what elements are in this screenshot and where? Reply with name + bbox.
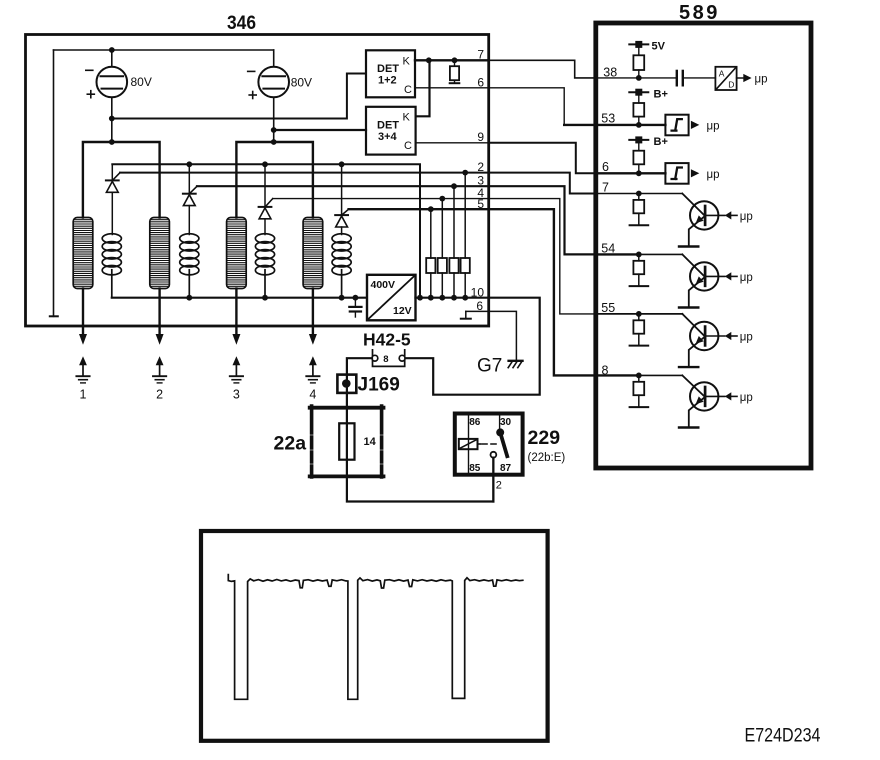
svg-text:22a: 22a (274, 433, 307, 455)
svg-text:E724D234: E724D234 (745, 724, 821, 746)
svg-text:(22b:E): (22b:E) (528, 452, 566, 464)
svg-text:7: 7 (602, 180, 609, 194)
svg-text:μp: μp (740, 332, 753, 344)
svg-text:53: 53 (601, 112, 615, 126)
svg-text:6: 6 (602, 160, 609, 174)
svg-text:2: 2 (477, 160, 484, 174)
svg-text:A: A (719, 68, 725, 78)
svg-text:6: 6 (477, 76, 484, 90)
svg-text:30: 30 (500, 417, 512, 428)
svg-text:400V: 400V (371, 279, 396, 291)
svg-text:589: 589 (679, 2, 720, 24)
svg-text:55: 55 (601, 301, 615, 315)
svg-text:1+2: 1+2 (378, 75, 397, 87)
svg-text:10: 10 (471, 285, 485, 299)
svg-text:B+: B+ (654, 89, 668, 101)
svg-text:μp: μp (740, 211, 753, 223)
svg-text:1: 1 (80, 388, 87, 402)
svg-text:J169: J169 (358, 375, 400, 396)
svg-text:3: 3 (233, 388, 240, 402)
svg-text:μp: μp (707, 169, 720, 181)
svg-text:D: D (728, 79, 734, 89)
svg-text:8: 8 (383, 354, 388, 365)
svg-text:C: C (404, 140, 412, 152)
svg-text:C: C (404, 84, 412, 96)
svg-text:80V: 80V (291, 76, 312, 90)
svg-text:346: 346 (227, 12, 256, 34)
svg-text:DET: DET (377, 120, 399, 132)
svg-text:85: 85 (469, 463, 481, 474)
svg-text:G7: G7 (477, 356, 502, 377)
svg-text:K: K (403, 112, 411, 124)
svg-text:2: 2 (496, 480, 502, 492)
svg-text:9: 9 (477, 130, 484, 144)
svg-text:DET: DET (377, 63, 399, 75)
svg-text:μp: μp (707, 121, 720, 133)
svg-text:μp: μp (755, 73, 768, 85)
svg-text:54: 54 (601, 241, 615, 255)
svg-text:5: 5 (477, 197, 484, 211)
svg-text:B+: B+ (654, 136, 668, 148)
svg-text:38: 38 (603, 65, 617, 79)
svg-text:4: 4 (309, 388, 316, 402)
svg-text:7: 7 (477, 48, 484, 62)
svg-text:87: 87 (500, 463, 512, 474)
svg-text:86: 86 (469, 417, 481, 428)
svg-text:μp: μp (740, 272, 753, 284)
svg-text:2: 2 (156, 388, 163, 402)
svg-text:229: 229 (528, 427, 561, 449)
svg-text:12V: 12V (393, 305, 412, 317)
svg-text:14: 14 (364, 436, 377, 448)
svg-text:8: 8 (602, 363, 609, 377)
svg-text:5V: 5V (652, 41, 666, 53)
svg-text:H42-5: H42-5 (363, 330, 411, 350)
svg-text:μp: μp (740, 392, 753, 404)
svg-text:3+4: 3+4 (378, 131, 398, 143)
svg-text:K: K (403, 55, 411, 67)
svg-text:80V: 80V (131, 75, 152, 89)
